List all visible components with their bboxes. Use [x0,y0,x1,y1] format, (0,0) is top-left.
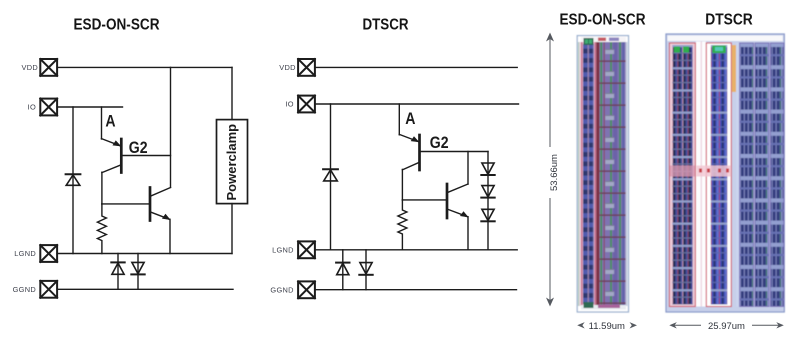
diode D7 [481,209,494,221]
wire LGND2 rail [315,249,517,251]
svg-text:VDD: VDD [279,63,296,72]
port IO [40,99,57,116]
wire IO2 rail [315,103,519,105]
diode D5 [481,163,494,175]
wire IO2 to Q3 emitter [398,104,400,135]
wire GGND2 rail [315,289,517,291]
wire IO to diode D1 branch [72,107,74,254]
svg-text:DTSCR: DTSCR [363,17,409,34]
dimension label 11.59um [577,321,637,332]
port LGND [40,245,57,262]
port GGND2 [298,281,315,298]
wire LGND rail [57,253,232,255]
transistor Q2 (NPN) [150,188,171,254]
wire VDD to G2 / Q2 collector [170,67,172,187]
svg-text:ESD-ON-SCR: ESD-ON-SCR [560,12,646,29]
svg-text:GGND: GGND [270,286,293,295]
wire diode D9 branch [365,250,367,290]
svg-text:LGND: LGND [272,246,294,255]
wire IO2 to diode D4 branch [330,104,332,250]
port IO2 [298,96,315,113]
svg-text:Powerclamp: Powerclamp [224,124,239,201]
svg-text:G2: G2 [129,139,148,157]
svg-text:53.66um: 53.66um [549,154,560,191]
wire Q3 collector to Q4 base [402,199,447,201]
port VDD2 [298,59,315,76]
layout image DTSCR [666,34,784,312]
wire VDD to powerclamp [231,67,233,119]
wire powerclamp to LGND [231,204,233,254]
svg-text:11.59um: 11.59um [589,321,625,332]
svg-text:G2: G2 [430,134,449,152]
svg-text:DTSCR: DTSCR [705,12,753,29]
svg-text:IO: IO [285,100,293,109]
wire diode chain branch [487,152,489,250]
powerclamp U1 [217,120,248,204]
diode D1 [66,174,81,185]
svg-text:LGND: LGND [14,249,36,258]
diode D4 [323,169,338,181]
wire VDD2 rail [315,66,517,68]
port LGND2 [298,241,315,258]
wire IO to Q1 emitter [101,107,103,139]
svg-text:VDD: VDD [21,63,38,72]
layout image ESD-ON-SCR [577,36,628,312]
diode D9 [359,263,372,275]
resistor R1 [97,204,106,254]
svg-text:A: A [105,113,115,131]
wire GGND rail [57,288,233,290]
wire VDD rail [57,66,232,68]
svg-text:A: A [405,110,415,128]
diode D8 [336,263,349,275]
wire Q1 collector to Q2 base [102,203,150,205]
resistor R2 [398,200,407,250]
wire diode D2 branch [117,254,119,290]
wire G2 line [123,155,171,157]
port GGND [40,281,57,298]
transistor Q1 (PNP) [102,139,122,204]
wire IO rail [57,106,122,108]
diode D2 [111,262,124,274]
wire diode D8 branch [342,250,344,290]
wire G2 line 2 [421,151,488,153]
diode D3 [131,262,144,274]
svg-text:GGND: GGND [13,285,36,294]
diode D6 [481,186,494,198]
svg-text:ESD-ON-SCR: ESD-ON-SCR [74,17,160,34]
port VDD [40,59,57,76]
transistor Q3 (PNP) [399,134,419,200]
dimension arrow 53.66um [546,33,554,307]
dimension label 25.97um [669,321,784,332]
wire diode D3 branch [137,254,139,290]
svg-text:IO: IO [28,103,36,112]
transistor Q4 (NPN) [447,152,468,250]
svg-text:25.97um: 25.97um [708,321,745,332]
